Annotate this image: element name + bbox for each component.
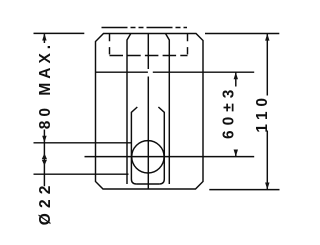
- vertical centerline of hole: [147, 34, 149, 189]
- arrowhead 110 bottom (down): [265, 183, 269, 190]
- arrowhead 60±3 bottom (down): [234, 150, 238, 157]
- svg-text:Ø22: Ø22: [37, 180, 54, 225]
- keyhole slot left wall: [131, 107, 137, 184]
- extension line top-right (110): [205, 33, 279, 35]
- hole circle Ø22: [132, 141, 164, 173]
- top cap parting line: [96, 71, 255, 73]
- phantom line (lever travel) above body: [102, 27, 188, 29]
- inner channel right edge: [166, 34, 170, 185]
- extension line top-left (80 MAX.): [34, 32, 85, 34]
- arrowhead 110 top (up): [265, 34, 269, 41]
- arrowhead 60±3 top (up): [234, 72, 238, 79]
- body outline (outer octagon): [96, 34, 204, 190]
- keyhole slot right wall: [158, 107, 164, 184]
- tangent line lower (Ø22): [34, 173, 129, 175]
- dimension line Ø22 shaft: [43, 143, 45, 186]
- horizontal centerline of hole (extension for 60±3): [85, 156, 255, 158]
- keyhole slot bottom: [136, 183, 159, 185]
- dimension line 110 shafts: [266, 34, 268, 190]
- arrowhead 80 MAX. bottom (down): [42, 136, 46, 143]
- arrowhead 80 MAX. top (up): [42, 33, 46, 40]
- extension line bottom-right (110): [209, 189, 279, 191]
- hidden slot (dashed U) in top cap: [109, 34, 111, 56]
- inner channel left edge: [127, 34, 131, 185]
- svg-text:60±3: 60±3: [221, 85, 238, 139]
- tangent line upper (Ø22): [34, 142, 132, 144]
- arrowhead Ø22 middle down: [42, 160, 47, 166]
- dimension line 80 MAX. shafts: [43, 33, 45, 142]
- svg-text:80 MAX.: 80 MAX.: [37, 41, 54, 129]
- arrowhead Ø22 middle up: [42, 153, 47, 159]
- dimension line 60±3 shafts: [235, 72, 237, 156]
- svg-text:110: 110: [254, 93, 271, 132]
